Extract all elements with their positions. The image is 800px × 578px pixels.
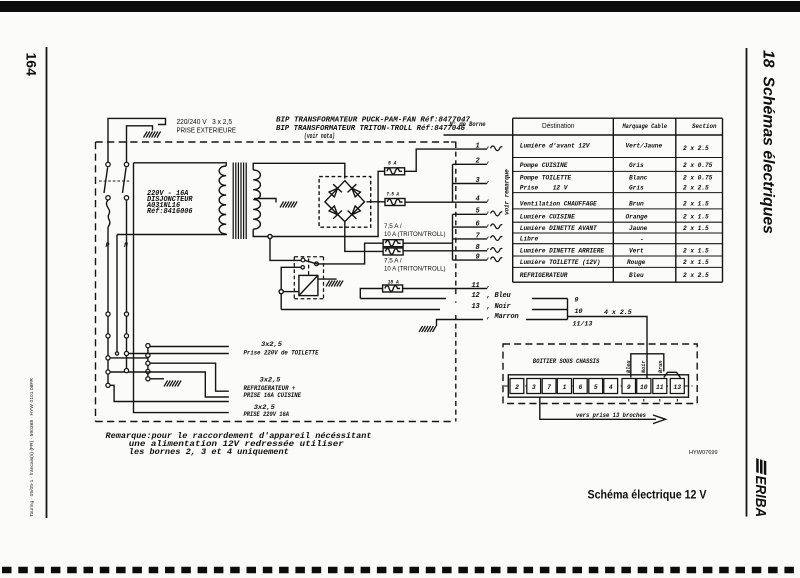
svg-text:2 x 0.75: 2 x 0.75	[683, 162, 713, 169]
svg-text:2 x 1.5: 2 x 1.5	[683, 214, 709, 221]
dashed border right segment (to terminals)	[455, 143, 457, 422]
svg-text:7: 7	[547, 384, 551, 391]
svg-text:Rouge: Rouge	[627, 259, 646, 266]
svg-text:2: 2	[515, 384, 519, 391]
svg-text:,: ,	[487, 221, 491, 229]
svg-text:Déstination: Déstination	[542, 121, 575, 130]
svg-text:Orange: Orange	[626, 214, 648, 221]
svg-text:, Bleu: , Bleu	[487, 292, 512, 300]
svg-text:164: 164	[24, 53, 40, 77]
relay coil diagonal	[299, 275, 318, 295]
svg-text:18 Schémas électriques: 18 Schémas électriques	[760, 50, 777, 234]
wire primary top feed	[134, 163, 227, 166]
wire F2 output to terminal 4	[405, 201, 487, 203]
svg-text:2 x 1.5: 2 x 1.5	[683, 225, 709, 232]
secondary tap wire	[254, 199, 276, 203]
relay coil box	[299, 275, 318, 295]
svg-text:4: 4	[609, 384, 613, 391]
svg-text:7,5 A /: 7,5 A /	[384, 223, 402, 230]
svg-text:BIP TRANSFORMATEUR TRITON-TROL: BIP TRANSFORMATEUR TRITON-TROLL Réf:8477…	[276, 125, 465, 133]
wire terminal 5	[453, 213, 488, 215]
breaker blade P	[104, 168, 108, 194]
wire relay bus down to Noir wire	[280, 294, 282, 310]
main dashed enclosure (caravan boundary)	[96, 142, 455, 422]
wire relay to F3 input	[317, 243, 384, 264]
svg-text:,: ,	[487, 143, 491, 151]
svg-text:2 x 2.5: 2 x 2.5	[683, 145, 709, 152]
svg-text:Prise 220V de TOILETTE: Prise 220V de TOILETTE	[244, 350, 320, 357]
wire terminal 12 (Bleu)	[360, 298, 567, 300]
wire bundle feed to chassis box	[568, 317, 648, 379]
svg-text:,: ,	[487, 254, 491, 262]
svg-text:ERIBA: ERIBA	[752, 476, 768, 517]
svg-text:2 x 2.5: 2 x 2.5	[683, 272, 709, 279]
riser node C	[146, 361, 150, 365]
transformer secondary winding	[253, 170, 260, 229]
svg-text:Jaune: Jaune	[629, 225, 648, 232]
diode D4 (bottom-right)	[348, 204, 363, 218]
svg-text:REFRIGERATEUR: REFRIGERATEUR	[520, 272, 568, 279]
svg-text:Blanc: Blanc	[629, 175, 648, 182]
svg-text:,: ,	[487, 232, 491, 240]
fuse F2 7.5A	[385, 199, 405, 206]
svg-text:(voir nota): (voir nota)	[304, 133, 335, 141]
bridge rectifier dashed box	[319, 177, 371, 228]
wire mains P to label	[108, 118, 166, 164]
ground at relay coil	[326, 281, 343, 287]
svg-text:13: 13	[472, 303, 481, 311]
arrow vers prise 13 broches	[540, 397, 656, 419]
diode D3 (bottom-left)	[327, 204, 342, 218]
svg-text:vers prise 13 broches: vers prise 13 broches	[576, 412, 646, 419]
terminal labels column	[472, 143, 519, 321]
svg-text:,: ,	[487, 196, 491, 204]
cable toilette wire a	[150, 346, 229, 348]
wire F5 output to terminal 11	[403, 288, 487, 290]
svg-text:Gris: Gris	[629, 185, 644, 192]
bus 12V rectified (terminals 2-3-4)	[452, 164, 454, 202]
breaker blade N	[123, 168, 127, 194]
relay switch contact	[315, 262, 319, 266]
riser node E	[146, 377, 150, 381]
svg-text:10 A (TRITON/TROLL): 10 A (TRITON/TROLL)	[384, 266, 446, 273]
svg-text:13: 13	[674, 384, 682, 391]
wire split bracket in box	[631, 354, 664, 378]
svg-text:Brun: Brun	[658, 361, 664, 373]
disjoncteur contact P	[106, 162, 110, 166]
wire terminal 6	[453, 226, 488, 228]
relay dashed outline	[294, 257, 323, 299]
svg-text:N° de Borne: N° de Borne	[450, 121, 486, 128]
svg-text:2 x 0.75: 2 x 0.75	[683, 175, 713, 182]
node N3	[124, 351, 128, 355]
svg-text:7,5 A /: 7,5 A /	[384, 257, 402, 264]
wire F1 output to terminal 1	[405, 149, 487, 171]
wire bridge+ to 7.5A fuse	[367, 201, 386, 203]
bottom dashed page bar	[2, 567, 800, 574]
svg-text:9: 9	[476, 254, 480, 262]
wire P tap to riser	[108, 357, 148, 359]
ground cable group	[164, 381, 181, 387]
wire terminal 9	[453, 259, 488, 261]
left margin rule	[46, 47, 48, 518]
breaker mechanical link (dashed)	[99, 180, 131, 182]
node P5	[106, 383, 110, 387]
wire terminal 2	[453, 163, 488, 165]
svg-text:3x2,5: 3x2,5	[254, 404, 275, 411]
svg-text:11: 11	[656, 384, 664, 391]
wire T2 vertical (primary feed down)	[134, 163, 229, 413]
wavy terminal symbols	[491, 146, 503, 262]
svg-text:Lumière DINETTE AVANT: Lumière DINETTE AVANT	[520, 225, 597, 232]
svg-text:BIP TRANSFORMATEUR PUCK-PAM-FA: BIP TRANSFORMATEUR PUCK-PAM-FAN Réf:8477…	[276, 117, 471, 125]
wire junction down to relay switch	[270, 239, 301, 261]
lamp bus (terminals 5-9)	[452, 214, 454, 260]
transformer core	[233, 163, 246, 240]
top black page bar	[0, 1, 800, 12]
svg-text:Schéma électrique 12 V: Schéma électrique 12 V	[588, 487, 707, 501]
wire terminal 7	[453, 238, 488, 240]
arrow head	[653, 415, 666, 424]
diode D1 (top-left)	[327, 184, 342, 198]
wire terminal 13 (Noir)	[281, 309, 567, 311]
svg-text:Lumière CUISINE: Lumière CUISINE	[520, 214, 575, 221]
cable refrigerateur wire a	[150, 363, 229, 391]
ground PE (prise exterieure)	[144, 132, 161, 138]
svg-text:voir remarque: voir remarque	[504, 169, 511, 215]
table body rows	[520, 143, 713, 279]
riser node D	[146, 369, 150, 373]
cable riser	[147, 346, 149, 379]
transformer T1 primary winding	[219, 166, 226, 234]
svg-text:Marquage Cable: Marquage Cable	[622, 123, 668, 130]
svg-text:4 x 2.5: 4 x 2.5	[604, 309, 632, 316]
svg-text:,: ,	[487, 158, 491, 166]
wire F4 output to terminal 8	[403, 250, 487, 252]
wire junction to 5A fuse input	[272, 171, 385, 236]
svg-text:3x2,5: 3x2,5	[261, 341, 282, 348]
wire primary bottom feed	[117, 233, 226, 236]
cell pin ticks	[629, 399, 678, 402]
wire mains N to earth	[127, 126, 153, 164]
BIP transformer annotations	[276, 117, 471, 142]
svg-text:Bleu: Bleu	[626, 361, 632, 373]
svg-text:3: 3	[532, 384, 536, 391]
svg-text:Bleu: Bleu	[629, 272, 644, 279]
distribution node N1	[124, 312, 128, 316]
right margin rule	[746, 48, 748, 517]
svg-text:Lumière d'avant 12V: Lumière d'avant 12V	[520, 143, 591, 150]
bridge diamond	[325, 181, 365, 222]
wire N down	[126, 200, 128, 371]
wire node to coil box	[283, 291, 299, 293]
riser node B	[146, 353, 150, 357]
svg-text:Pompe TOILETTE: Pompe TOILETTE	[520, 175, 572, 182]
svg-text:2 x 2.5: 2 x 2.5	[683, 185, 709, 192]
svg-text:,: ,	[487, 244, 491, 252]
svg-text:9: 9	[627, 384, 631, 391]
fuse F5 15A	[383, 285, 403, 292]
wire terminal 3	[453, 183, 488, 185]
strip cell numbers	[515, 384, 681, 391]
svg-text:,: ,	[487, 208, 491, 216]
node T1 join	[115, 352, 118, 355]
wire T1 vertical	[116, 235, 118, 354]
svg-text:BOITIER SOUS CHASSIS: BOITIER SOUS CHASSIS	[533, 358, 600, 365]
svg-text:Noir: Noir	[641, 361, 647, 373]
cable table frame	[513, 118, 723, 282]
wire secondary top to bridge	[253, 163, 345, 178]
wire secondary bottom to junction	[253, 229, 268, 236]
svg-text:10: 10	[640, 384, 648, 391]
svg-text:Brun: Brun	[629, 200, 644, 207]
wire battery feed to F5 input	[360, 289, 382, 299]
svg-text:15 A: 15 A	[388, 278, 400, 285]
wire Marron	[437, 320, 568, 327]
svg-text:PRISE EXTERIEURE: PRISE EXTERIEURE	[177, 126, 237, 135]
disjoncteur contact N	[124, 162, 128, 166]
wire hump to terminal 13	[664, 372, 681, 378]
svg-text:Réf:8416006: Réf:8416006	[147, 208, 193, 216]
svg-text:HYW07699: HYW07699	[689, 450, 718, 456]
wire coil control to left bus	[281, 267, 301, 289]
svg-text:Ventilation CHAUFFAGE: Ventilation CHAUFFAGE	[520, 200, 597, 207]
svg-text:Pompe CUISINE: Pompe CUISINE	[520, 162, 568, 169]
breaker lower contact P	[106, 196, 110, 200]
disjoncteur text block	[146, 190, 193, 216]
svg-text:PRISE 16A CUISINE: PRISE 16A CUISINE	[244, 392, 302, 399]
svg-text:9: 9	[575, 297, 579, 304]
fuse F3 7,5/10A	[383, 240, 403, 247]
breaker lower contact N	[124, 196, 128, 200]
wire relay coil to ground	[318, 278, 337, 280]
svg-text:4: 4	[476, 196, 480, 204]
node on relay left bus	[279, 290, 283, 294]
svg-text:, Marron: , Marron	[487, 313, 519, 321]
svg-text:5: 5	[594, 384, 598, 391]
fuse F4 7,5/10A	[383, 248, 403, 255]
ground of Marron wire	[419, 326, 436, 332]
svg-text:2 x 1.5: 2 x 1.5	[683, 248, 709, 255]
svg-text:11/13: 11/13	[573, 321, 593, 328]
distribution node P3	[106, 356, 110, 360]
svg-text:2 x 1.5: 2 x 1.5	[683, 259, 709, 266]
svg-text:Lumière DINETTE ARRIERE: Lumière DINETTE ARRIERE	[520, 248, 605, 255]
svg-text:Vert/Jaune: Vert/Jaune	[626, 143, 663, 150]
earth stub of cable group	[150, 378, 164, 380]
bundle bracket to chassis box	[567, 299, 569, 320]
svg-text:REFRIGERATEUR +: REFRIGERATEUR +	[244, 385, 296, 392]
terminal strip outer	[508, 375, 688, 397]
node N4	[124, 369, 128, 373]
wire P down	[107, 227, 109, 385]
relay coil control contact	[301, 266, 304, 269]
relay switch pivot	[301, 258, 305, 262]
svg-text:Lumière TOILETTE (12V): Lumière TOILETTE (12V)	[520, 259, 601, 266]
svg-text:,: ,	[487, 282, 491, 290]
svg-text:Vert: Vert	[629, 248, 644, 255]
distribution node P2	[106, 334, 110, 338]
svg-text:les bornes 2, 3 et 4 uniquemen: les bornes 2, 3 et 4 uniquement	[129, 447, 289, 457]
svg-text:Libre: Libre	[520, 236, 539, 243]
svg-text:6: 6	[579, 384, 583, 391]
svg-text:12: 12	[472, 292, 481, 300]
svg-text:1: 1	[476, 143, 480, 151]
table row separators	[513, 158, 723, 268]
svg-text:10: 10	[575, 308, 583, 315]
svg-text:Gris: Gris	[629, 162, 644, 169]
svg-text:2 x 1.5: 2 x 1.5	[683, 200, 709, 207]
svg-text:1: 1	[563, 384, 567, 391]
svg-text:11: 11	[472, 282, 480, 290]
fuse F1 5A	[385, 168, 405, 175]
svg-text:-: -	[640, 237, 644, 244]
cable prise 220V wire a	[110, 385, 229, 401]
dashed enclosure corner piece	[451, 142, 456, 146]
distribution node N2	[124, 334, 128, 338]
header rule	[444, 134, 723, 136]
svg-text:Section: Section	[692, 123, 717, 130]
boitier sous chassis dashed box	[503, 344, 697, 404]
svg-text:10 A (TRITON/TROLL): 10 A (TRITON/TROLL)	[384, 231, 446, 238]
riser node A	[146, 344, 150, 348]
wire bridge- down to F4 input	[345, 222, 383, 252]
svg-text:PRISE 220V 16A: PRISE 220V 16A	[244, 411, 290, 418]
wire F3 output to lamp bus	[403, 242, 452, 244]
cable refrigerateur wire b	[110, 372, 229, 397]
strip cells	[510, 379, 684, 394]
svg-text:,: ,	[487, 177, 491, 185]
svg-text:, Noir: , Noir	[487, 303, 512, 311]
node junction secondary bottom	[268, 234, 272, 238]
label background gaps on battery wires	[440, 294, 532, 322]
ERIBA logo	[752, 458, 768, 517]
cable toilette wire b	[127, 353, 229, 355]
relay switch blade	[305, 260, 318, 264]
breaker thermal element P	[106, 200, 109, 227]
svg-text:3x2,5: 3x2,5	[260, 377, 281, 384]
svg-text:Touring · 05/05-1 · francais(s: Touring · 05/05-1 · francais(s) (FR) · 5…	[29, 377, 34, 517]
ground at secondary tap	[280, 202, 297, 208]
terminal strip centerline (dash-dot)	[504, 385, 693, 387]
svg-text:Prise 12 V: Prise 12 V	[520, 185, 569, 192]
diode D2 (top-right)	[348, 184, 363, 198]
svg-text:5 A: 5 A	[388, 160, 397, 167]
svg-text:7.5 A: 7.5 A	[386, 191, 399, 198]
node P4	[106, 370, 110, 374]
distribution node P1	[106, 312, 110, 316]
